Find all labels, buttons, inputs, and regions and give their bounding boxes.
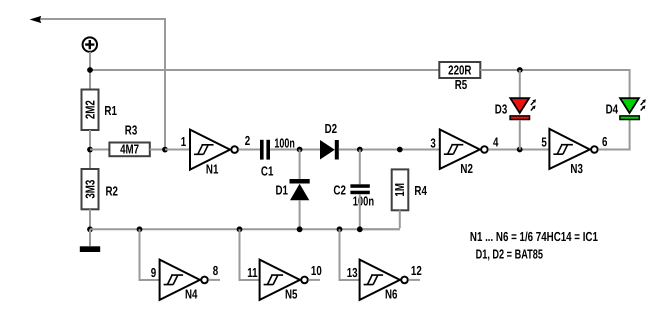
wire: D1 branch down [299,150,301,180]
wire: N6 input branch [340,229,360,280]
svg-text:D3: D3 [495,102,507,117]
junction: ground node at R2 [87,226,93,232]
wire: R1 bottom to junction [89,130,91,169]
wire: N4 output stub [208,279,220,281]
svg-text:N4: N4 [185,286,198,301]
wire: R2 bottom to ground rail [89,209,91,229]
wire: N1 input stub [165,149,190,151]
svg-text:8: 8 [213,263,218,278]
wire: N6 output stub [408,279,420,281]
wire: C2 bottom to ground rail [359,194,361,229]
svg-text:100n: 100n [274,136,294,151]
svg-text:R3: R3 [125,122,137,137]
wire: R5 right along top rail to D4 [480,70,629,98]
svg-text:N1 ... N6 = 1/6 74HC14 = IC1: N1 ... N6 = 1/6 74HC14 = IC1 [470,229,598,244]
svg-text:4M7: 4M7 [120,142,139,157]
svg-text:11: 11 [247,265,257,280]
wire: top supply rail to R5 [90,69,439,71]
inverter N4 [160,260,208,300]
svg-text:2: 2 [245,133,250,148]
svg-text:N1: N1 [206,161,218,176]
svg-text:9: 9 [151,265,156,280]
junction: R3/N1 input node [162,147,168,153]
resistor R1 [82,90,99,131]
wire: bottom ground rail [90,228,400,230]
diode D1 [290,179,310,200]
junction: node B (D2/C2) [357,147,363,153]
wire: ground stub [89,229,91,246]
svg-text:1M: 1M [392,183,407,197]
junction: top rail / D3 [517,67,523,73]
wire: N1 output to C1 [239,149,261,151]
svg-text:4: 4 [493,135,499,150]
svg-text:12: 12 [411,263,422,278]
svg-text:C1: C1 [261,163,273,178]
wire: D1 anode to ground rail [299,200,301,229]
inverter N5 [260,260,308,300]
junction: N5 branch [237,226,243,232]
svg-text:1: 1 [181,134,186,149]
wire: R4 bottom to ground rail [360,210,400,229]
arrow (supply, pointing left) [30,16,42,23]
svg-text:N5: N5 [285,286,297,301]
wire: N4 input branch [140,229,160,280]
junction: R1/R2/R3 node [87,147,93,153]
svg-text:R5: R5 [455,77,467,92]
inverter N3 [549,129,597,169]
svg-text:2M2: 2M2 [82,100,97,119]
svg-text:220R: 220R [448,62,472,77]
wire: C1 to node A [270,149,320,151]
wire: N5 output stub [308,279,320,281]
LED D4 (green) [620,98,646,119]
junction: node A (C1/D1/D2) [297,147,303,153]
wire: R3 right to node [150,149,165,151]
LED D3 (red) [510,98,536,119]
svg-text:N3: N3 [570,161,582,176]
svg-text:D4: D4 [606,102,619,117]
svg-text:N6: N6 [385,286,397,301]
diode D2 [320,140,339,160]
capacitor C1 [260,140,270,160]
svg-text:6: 6 [602,134,607,149]
junction: N4 branch [137,226,143,232]
wire: N3 output to D4 [598,120,629,150]
resistor R4 [392,169,409,210]
resistor R2 [82,169,99,209]
wire: R3 left [90,149,109,151]
resistor R5 [439,62,480,78]
inverter N6 [360,260,408,300]
svg-text:D2: D2 [325,121,337,136]
junction: supply node [87,67,93,73]
svg-text:D1, D2 = BAT85: D1, D2 = BAT85 [476,246,543,261]
svg-text:R2: R2 [106,184,118,199]
wire: N5 input branch [240,229,260,280]
op-amp U: inverter N1 [190,130,238,170]
wire: D3 to N2/N3 rail [519,120,521,150]
capacitor C2 [350,184,369,194]
junction: D1 bottom [297,226,303,232]
ground [80,246,100,252]
junction: N6 branch [337,226,343,232]
svg-text:C2: C2 [333,182,345,197]
junction: D3 node [517,147,523,153]
wire: supply vertical from + down to R1 [89,52,91,90]
wire: D3 branch from top rail [519,70,521,98]
svg-text:R1: R1 [104,103,116,118]
svg-text:3M3: 3M3 [82,180,97,199]
svg-text:5: 5 [541,135,546,150]
node +V (circled plus) [83,37,97,51]
inverter N2 [440,130,488,169]
resistor R3 [109,142,149,157]
wire: N2 output to N3 input [488,149,549,151]
junction: C2 bottom [357,226,363,232]
svg-text:10: 10 [311,263,322,278]
wire: C2 branch down [359,150,361,185]
svg-text:13: 13 [347,265,358,280]
svg-text:R4: R4 [414,183,427,198]
wire: D2 cathode to node B [339,149,440,151]
svg-text:N2: N2 [460,161,472,176]
svg-text:3: 3 [430,136,435,151]
wire: feedback line to supply arrow [40,19,165,150]
svg-text:100n: 100n [353,194,374,209]
svg-text:D1: D1 [276,183,288,198]
junction: node B (R4 top) [397,147,403,153]
